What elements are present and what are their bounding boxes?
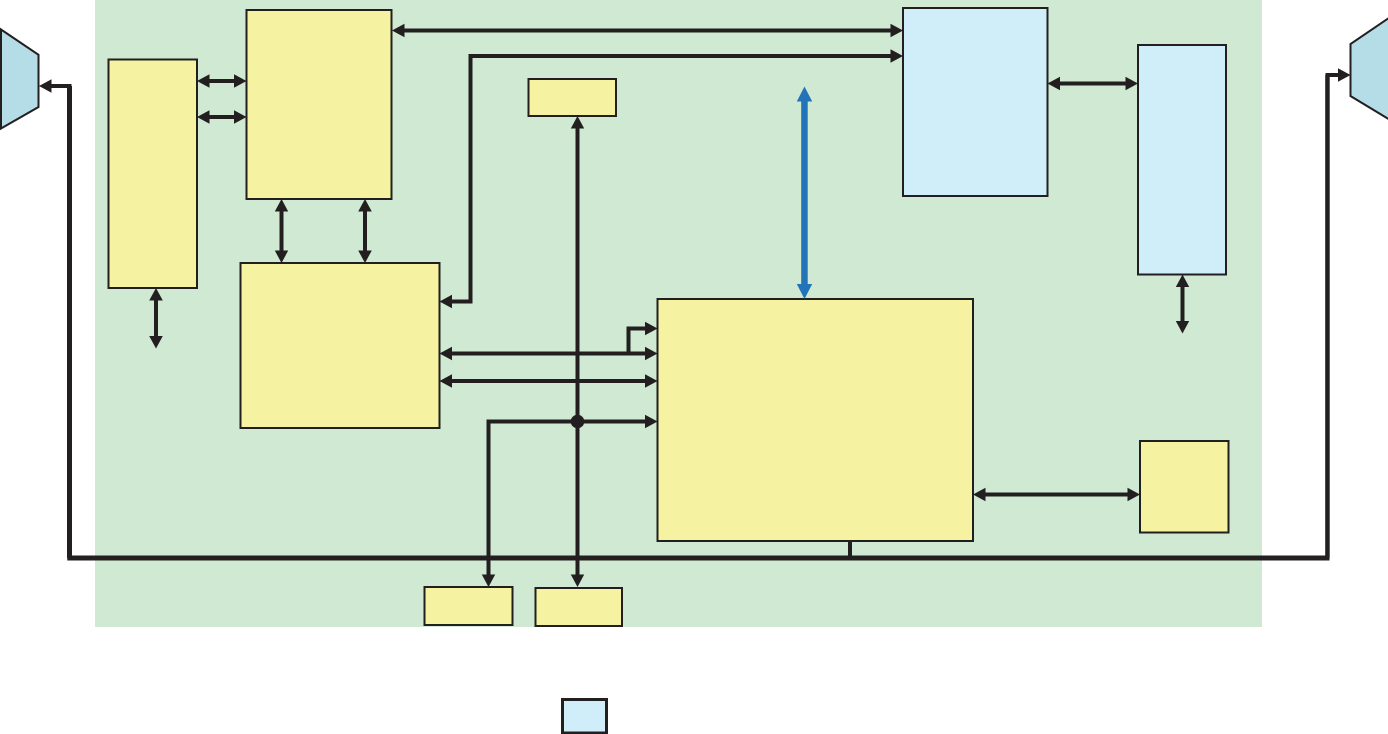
- wire: blue blocks link: [1048, 77, 1139, 90]
- wire: codec external port (dangling): [149, 288, 163, 349]
- wire: RF antenna port (dangling): [1176, 275, 1189, 334]
- left speaker transducer: [1, 30, 39, 129]
- wire: processor-filter right link: [358, 199, 372, 263]
- wire: codec-processor upper link: [197, 74, 247, 88]
- wire: filter-DSP second link: [440, 374, 658, 388]
- wire: blue wideband data arrow: [797, 87, 812, 300]
- wire: second top line to blue block and down to filter bank: [440, 49, 904, 308]
- block: DSP core (large center yellow): [658, 299, 974, 541]
- block: clock generator (small top yellow): [529, 79, 617, 116]
- junction dot: [571, 415, 585, 429]
- block: EEPROM interface (small right yellow): [1140, 441, 1229, 533]
- block: crystal oscillator (bottom yellow A): [425, 587, 513, 625]
- wire: codec-processor lower link: [197, 110, 247, 124]
- legend: digital block swatch: [563, 700, 607, 734]
- block: filter bank (mid-left yellow): [241, 263, 440, 428]
- block: power management (bottom yellow B): [536, 588, 623, 626]
- wire: long top bidirectional bus (input processor to blue block): [392, 24, 903, 37]
- system background region: [95, 0, 1262, 627]
- block: wireless interface (top-right blue): [903, 8, 1048, 196]
- wire: processor-filter left link: [275, 199, 288, 263]
- wire: horizontal line into DSP with drop to oscillator: [482, 415, 658, 587]
- wire: DSP-EEPROM link: [973, 488, 1140, 501]
- wire: DSP bottom stub to bus: [848, 541, 852, 560]
- wire: output bus to both speakers: [39, 68, 1351, 560]
- wire: filter-DSP bus with branch: [440, 322, 658, 360]
- right speaker transducer: [1351, 17, 1388, 121]
- block: RF transceiver (tall right blue): [1138, 45, 1226, 275]
- block: input signal processor (top yellow): [247, 10, 392, 199]
- wire: vertical clock distribution line: [571, 116, 584, 587]
- block: audio codec interface (tall left yellow): [109, 60, 198, 289]
